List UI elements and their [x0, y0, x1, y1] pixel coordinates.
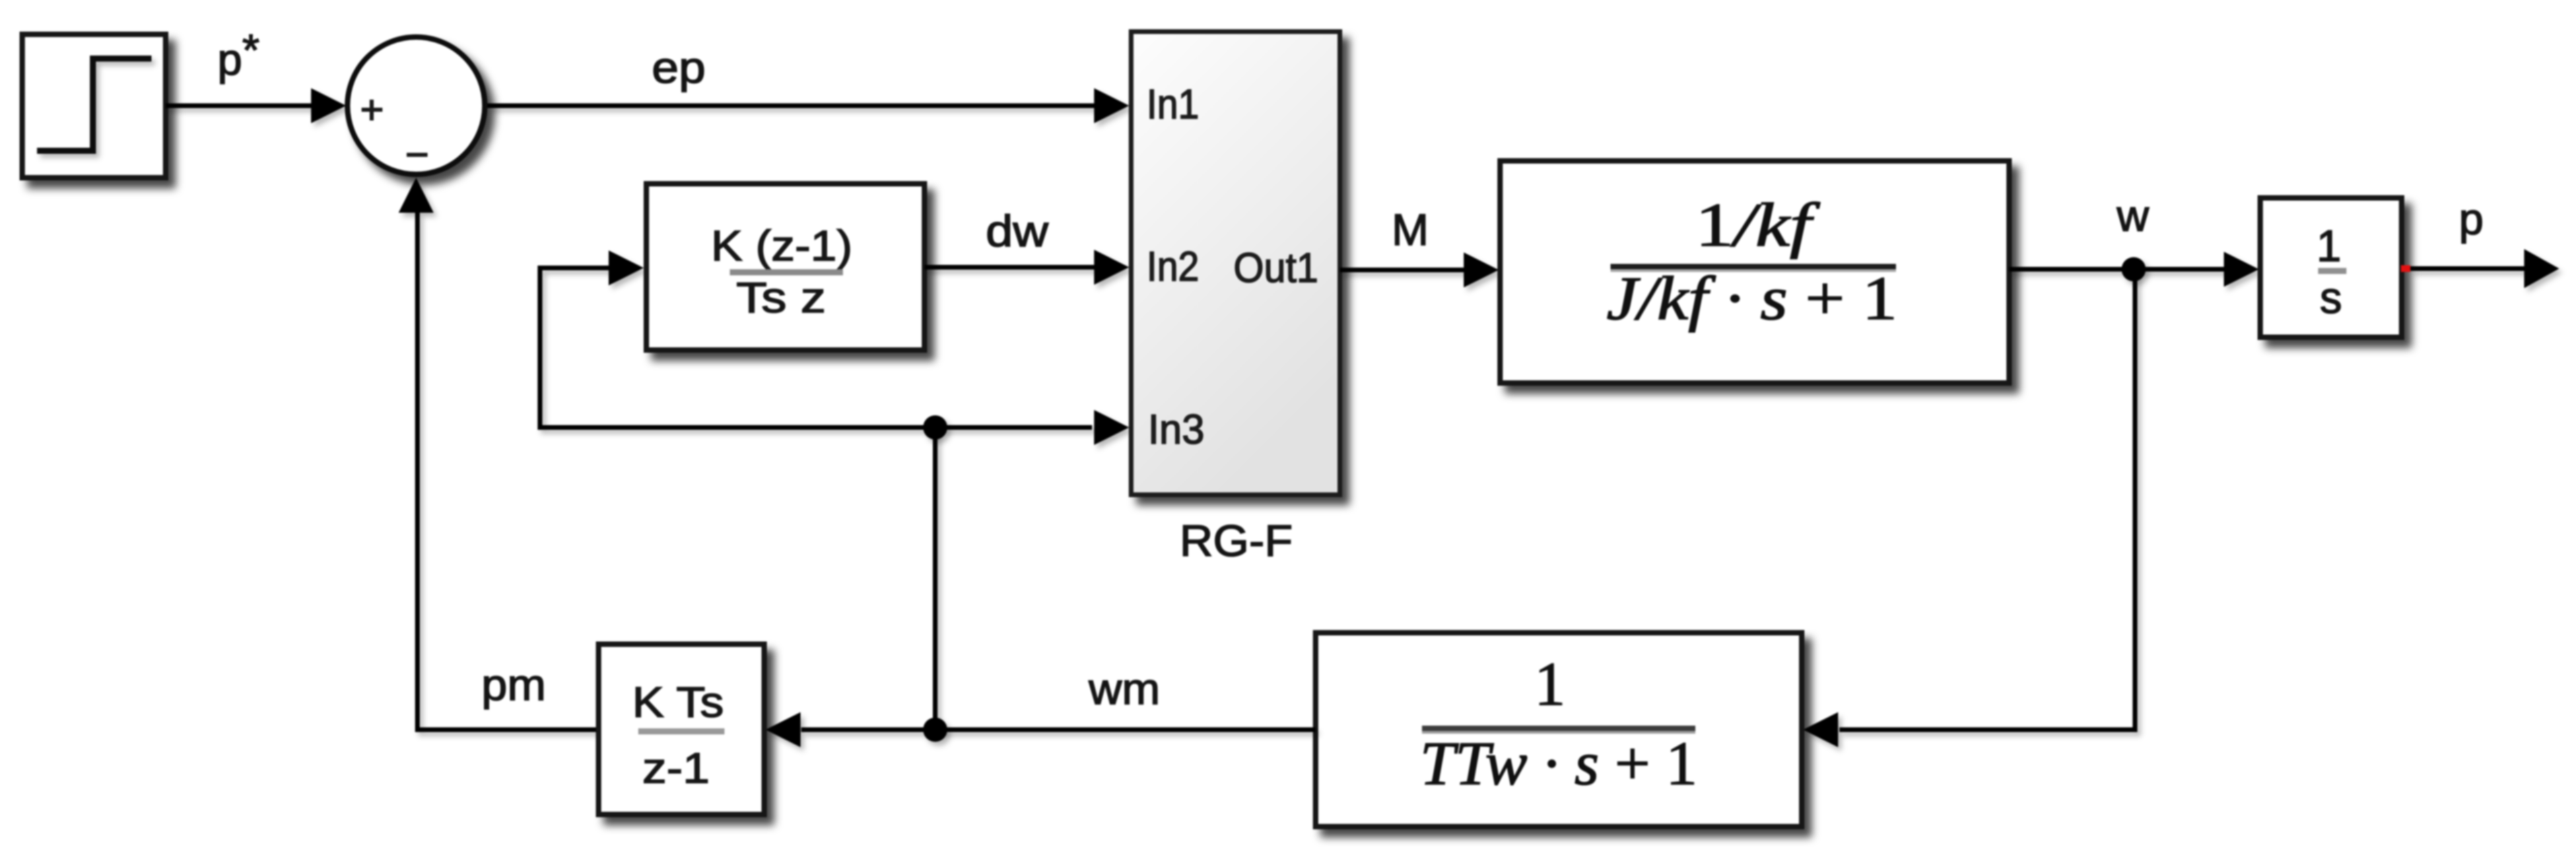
svg-text:dw: dw — [986, 206, 1048, 256]
loop wire to discrete derivative input — [540, 250, 1129, 445]
svg-text:M: M — [1392, 205, 1429, 254]
svg-text:1/kf: 1/kf — [1695, 190, 1821, 259]
svg-text:p*: p* — [217, 25, 259, 84]
svg-text:In1: In1 — [1147, 81, 1199, 128]
wire w down to feedback filter — [1803, 269, 2135, 747]
discrete derivative block K(z-1)/Tsz — [646, 184, 924, 350]
wire feedback filter to discrete integrator (wm) — [766, 712, 1316, 747]
svg-text:1: 1 — [2317, 221, 2342, 271]
svg-text:TTw · s + 1: TTw · s + 1 — [1420, 729, 1697, 798]
integrator 1/s — [2260, 198, 2402, 337]
wire integrator to output p — [2410, 249, 2559, 288]
wire sum to In1 (ep) — [487, 88, 1129, 123]
svg-text:J/kf · s + 1: J/kf · s + 1 — [1606, 264, 1897, 333]
node junction on wm line — [923, 718, 947, 742]
svg-text:p: p — [2459, 194, 2484, 244]
wire junction down to wm line — [933, 427, 938, 730]
wire sum minus input (from pm loop, vertical up into circle bottom) — [399, 178, 599, 730]
svg-text:s: s — [2320, 273, 2342, 322]
wire derivative to In2 (dw) — [924, 250, 1129, 285]
svg-text:In2: In2 — [1147, 244, 1199, 290]
svg-text:Ts z: Ts z — [737, 273, 826, 322]
feedback filter 1/(TTw s+1) — [1316, 633, 1802, 827]
svg-text:In3: In3 — [1148, 407, 1205, 453]
discrete integrator K Ts/(z-1) — [599, 644, 764, 814]
svg-text:w: w — [2116, 190, 2149, 240]
wire Out1 to plant (M) — [1340, 252, 1499, 287]
svg-text:wm: wm — [1088, 664, 1160, 714]
subsystem RG-F — [1131, 32, 1340, 495]
sum junction U1 — [347, 37, 485, 174]
wire plant to integrator (w) — [2009, 252, 2259, 287]
svg-text:K (z-1): K (z-1) — [711, 221, 852, 270]
node junction on In3 line — [923, 415, 947, 440]
wire step to sum — [166, 88, 346, 123]
svg-text:ep: ep — [652, 42, 706, 92]
svg-text:1: 1 — [1534, 650, 1565, 718]
step source block — [22, 34, 166, 178]
red output port mark — [2401, 265, 2410, 272]
svg-text:pm: pm — [481, 660, 546, 709]
svg-text:K Ts: K Ts — [632, 678, 724, 726]
svg-text:RG-F: RG-F — [1180, 516, 1293, 565]
svg-text:z-1: z-1 — [642, 744, 710, 792]
plant transfer fcn 1/kf over J/kf s+1 — [1500, 161, 2009, 383]
svg-text:Out1: Out1 — [1233, 245, 1318, 291]
node w junction — [2122, 257, 2146, 281]
